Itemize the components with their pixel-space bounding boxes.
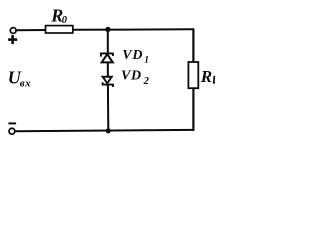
svg-text:VD: VD [122, 48, 143, 63]
wire (node A down to VD1) [107, 29, 109, 53]
label Uvx (input voltage) [8, 68, 31, 90]
wire (R0 to top-right corner through node A) [73, 28, 194, 31]
label R1 [200, 67, 215, 86]
svg-text:0: 0 [62, 15, 68, 26]
svg-text:R: R [200, 67, 212, 86]
wire (right branch, top-right corner down to R1) [192, 28, 194, 62]
zener diode VD2 [103, 77, 113, 87]
svg-text:VD: VD [121, 68, 142, 83]
node A (top junction dot) [105, 27, 110, 32]
label VD1 [122, 48, 149, 65]
resistor R1 (load) [188, 62, 198, 88]
wire (VD1 to VD2) [107, 62, 109, 76]
wire (top-left terminal to R0) [16, 29, 45, 31]
plus polarity mark [8, 35, 17, 44]
resistor R0 [46, 26, 73, 33]
svg-text:вх: вх [20, 77, 31, 89]
svg-text:2: 2 [143, 76, 150, 87]
svg-text:1: 1 [144, 55, 149, 65]
node B (bottom junction dot) [106, 128, 111, 133]
terminal + (top-left input terminal) [10, 28, 16, 34]
wire (bottom rail) [15, 130, 194, 131]
label R0 [50, 6, 68, 26]
wire (VD2 to node B) [107, 85, 109, 131]
label VD2 [121, 68, 150, 87]
minus polarity mark [8, 122, 16, 124]
wire (R1 down to bottom rail) [192, 88, 194, 131]
zener diode VD1 [101, 53, 113, 62]
terminal - (bottom-left input terminal) [9, 128, 15, 134]
